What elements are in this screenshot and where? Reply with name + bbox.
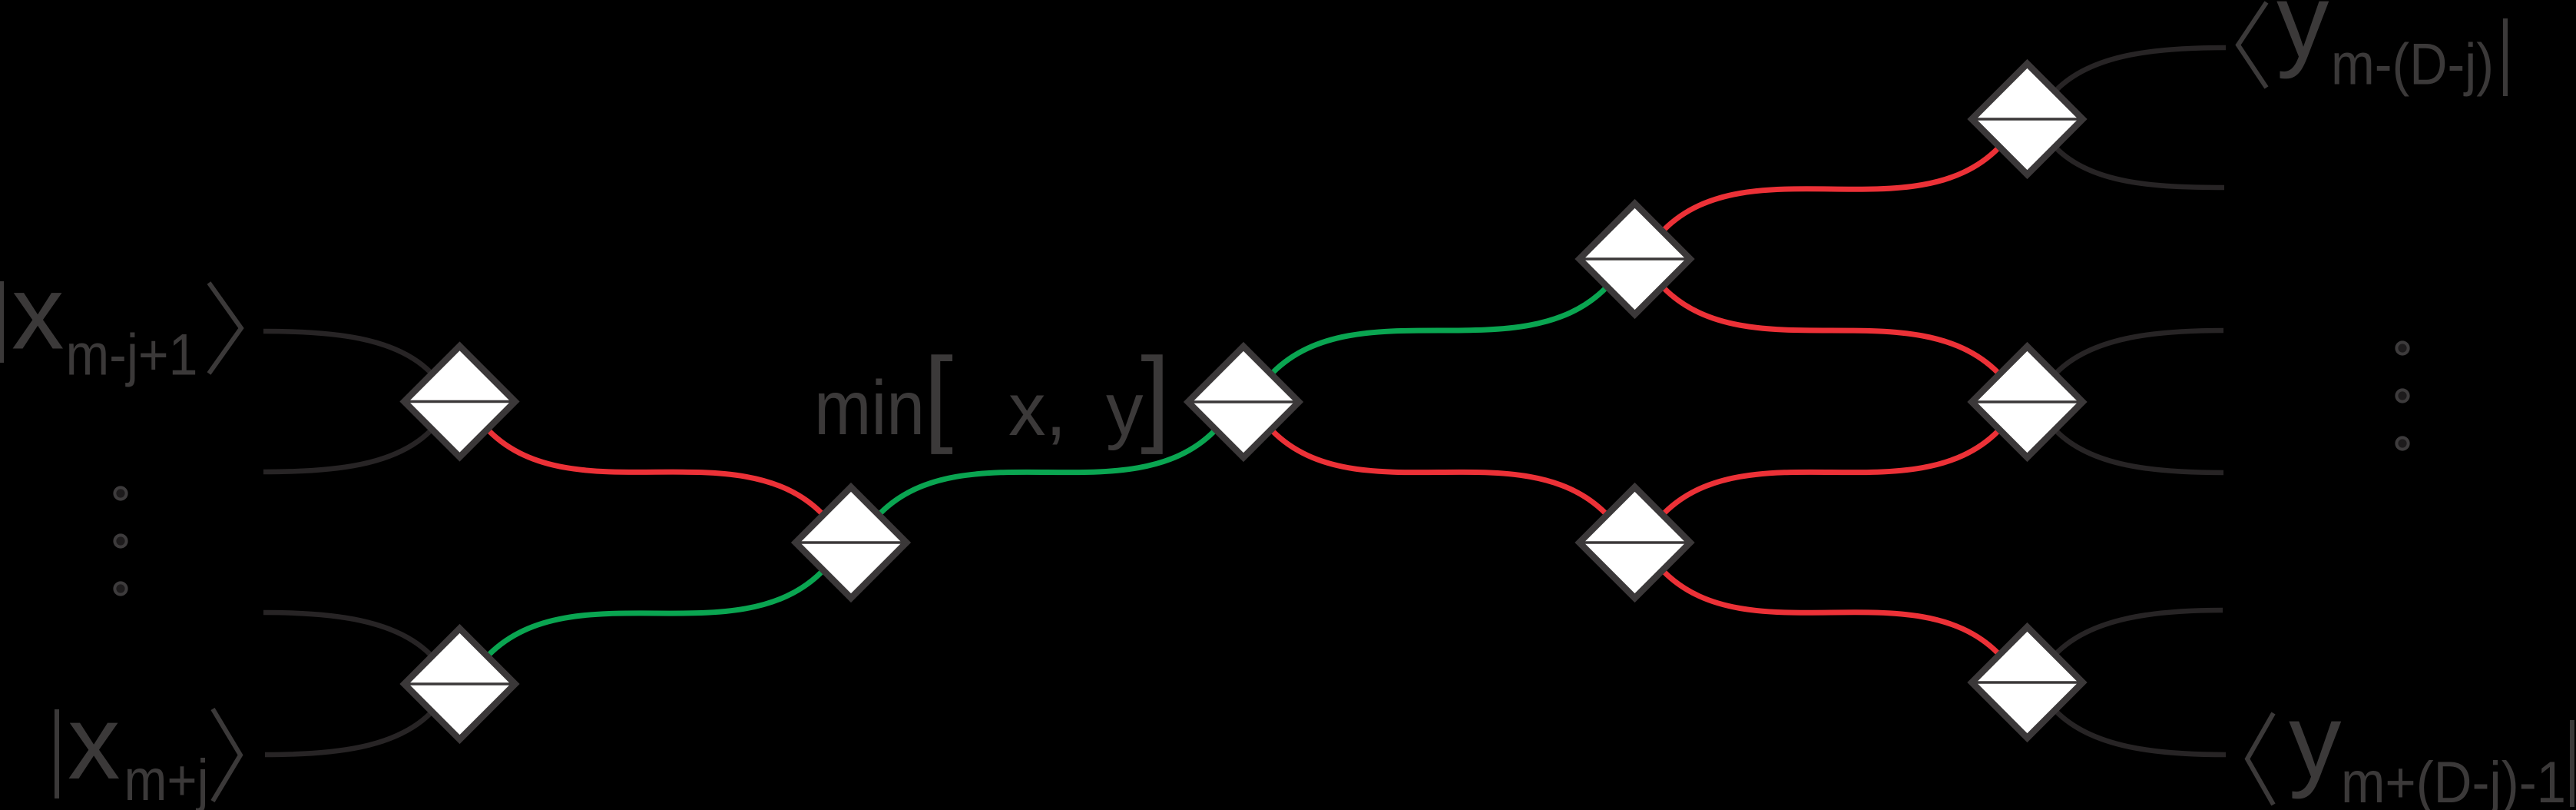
svg-text:x: x <box>12 254 65 372</box>
svg-text:y: y <box>2289 682 2342 800</box>
svg-text:y: y <box>2276 0 2329 80</box>
svg-text:m-j+1: m-j+1 <box>66 323 198 388</box>
svg-text:m+(D-j)-1: m+(D-j)-1 <box>2341 750 2566 810</box>
svg-text:[: [ <box>924 336 954 455</box>
svg-text:min: min <box>814 365 925 451</box>
svg-text:x,: x, <box>1008 367 1066 451</box>
svg-text:]: ] <box>1141 336 1170 455</box>
svg-text:m+j: m+j <box>124 748 209 810</box>
svg-text:y: y <box>1106 367 1144 451</box>
svg-text:x: x <box>68 684 121 802</box>
svg-text:m-(D-j): m-(D-j) <box>2331 32 2494 98</box>
